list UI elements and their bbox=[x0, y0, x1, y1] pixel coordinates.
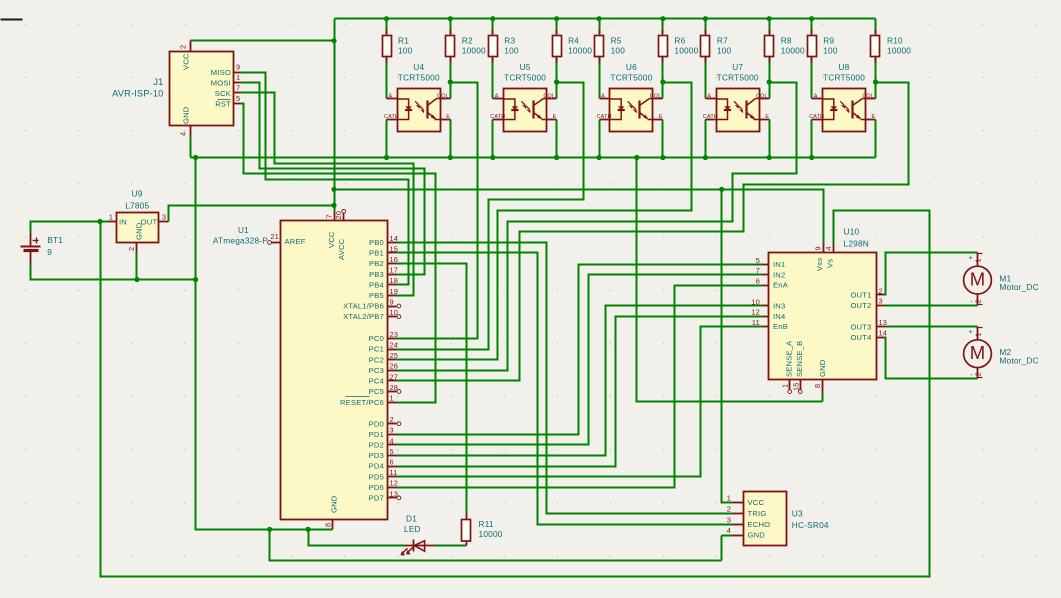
svg-text:Vss: Vss bbox=[815, 258, 824, 271]
svg-text:2: 2 bbox=[879, 286, 883, 295]
svg-text:28: 28 bbox=[390, 383, 399, 392]
svg-text:9: 9 bbox=[47, 247, 52, 257]
wire opto pin drop x9 bbox=[811, 120, 813, 158]
wire opto pin drop x10 bbox=[875, 120, 877, 158]
svg-text:19: 19 bbox=[390, 287, 399, 296]
svg-text:PD7: PD7 bbox=[369, 494, 384, 503]
svg-text:PB2: PB2 bbox=[369, 259, 384, 268]
junction bbox=[490, 16, 495, 21]
svg-text:10000: 10000 bbox=[462, 46, 486, 56]
svg-text:IN1: IN1 bbox=[773, 260, 785, 269]
svg-text:SCK: SCK bbox=[215, 89, 231, 98]
svg-text:VCC: VCC bbox=[327, 231, 336, 248]
resistor R7 bbox=[701, 30, 732, 63]
svg-text:3: 3 bbox=[390, 426, 394, 435]
ultrasonic sensor U3 HC-SR04 bbox=[727, 492, 829, 546]
svg-text:PD0: PD0 bbox=[369, 419, 384, 428]
junction bbox=[809, 155, 814, 160]
wire battery+ to L7805 IN bbox=[31, 222, 109, 234]
junction bbox=[193, 277, 198, 282]
svg-text:10000: 10000 bbox=[887, 46, 911, 56]
svg-text:3: 3 bbox=[727, 515, 731, 524]
optocoupler U6 TCRT5000 bbox=[597, 62, 663, 131]
wire U3 GND drop bbox=[721, 536, 723, 561]
svg-text:PC4: PC4 bbox=[369, 377, 384, 386]
junction bbox=[767, 79, 772, 84]
wire R9 to opto anode bbox=[811, 58, 813, 99]
wire opto pin drop x2 bbox=[450, 120, 452, 158]
wire MISO to PB4 bbox=[241, 73, 409, 285]
svg-text:PC0: PC0 bbox=[369, 334, 384, 343]
junction bbox=[809, 16, 814, 21]
svg-text:A: A bbox=[814, 93, 818, 99]
svg-text:1: 1 bbox=[390, 394, 394, 403]
wire U5 out to PC1 bbox=[397, 83, 584, 350]
svg-text:10000: 10000 bbox=[674, 46, 698, 56]
svg-text:R2: R2 bbox=[462, 36, 473, 46]
wire PD6 to EnA bbox=[397, 286, 763, 488]
svg-text:R7: R7 bbox=[717, 36, 728, 46]
junction bbox=[597, 16, 602, 21]
wire rail to R6 bbox=[662, 19, 664, 35]
svg-text:2: 2 bbox=[974, 372, 983, 376]
svg-text:U4: U4 bbox=[413, 62, 424, 72]
resistor R6 bbox=[659, 30, 699, 63]
junction bbox=[193, 155, 198, 160]
wire rail to R3 bbox=[492, 19, 494, 35]
resistor R9 bbox=[808, 30, 838, 63]
svg-text:AVCC: AVCC bbox=[337, 238, 346, 260]
junction bbox=[660, 16, 665, 21]
wire rail to R2 bbox=[450, 19, 452, 35]
wire R7 to opto anode bbox=[705, 58, 707, 99]
wire rail to R8 bbox=[769, 19, 771, 35]
svg-text:Motor_DC: Motor_DC bbox=[999, 356, 1038, 366]
junction bbox=[767, 16, 772, 21]
svg-text:TCRT5000: TCRT5000 bbox=[823, 73, 865, 83]
svg-text:VCC: VCC bbox=[182, 53, 191, 70]
svg-text:2: 2 bbox=[974, 299, 983, 303]
optocoupler U5 TCRT5000 bbox=[490, 62, 556, 131]
svg-text:E: E bbox=[765, 114, 769, 120]
svg-text:5: 5 bbox=[236, 94, 240, 103]
svg-text:10000: 10000 bbox=[781, 46, 805, 56]
svg-text:U6: U6 bbox=[626, 62, 637, 72]
svg-text:GND: GND bbox=[330, 495, 339, 513]
wire gnd to LED bbox=[309, 530, 405, 546]
svg-text:R5: R5 bbox=[611, 36, 622, 46]
resistor R2 bbox=[446, 30, 487, 63]
svg-text:PC3: PC3 bbox=[369, 366, 384, 375]
svg-text:PC5: PC5 bbox=[369, 387, 384, 396]
svg-text:24: 24 bbox=[390, 341, 399, 350]
junction bbox=[331, 187, 336, 192]
svg-text:COL: COL bbox=[756, 93, 768, 99]
svg-text:11: 11 bbox=[752, 318, 760, 327]
svg-text:PD2: PD2 bbox=[369, 441, 384, 450]
svg-text:E: E bbox=[659, 114, 663, 120]
svg-text:COL: COL bbox=[650, 93, 662, 99]
battery BT1 bbox=[21, 234, 64, 264]
wire OUT1 to M1+ bbox=[885, 253, 978, 295]
junction bbox=[554, 79, 559, 84]
wire R5 to opto anode bbox=[599, 58, 601, 99]
svg-text:9: 9 bbox=[814, 246, 823, 250]
wire opto pin drop x7 bbox=[705, 120, 707, 158]
svg-text:AREF: AREF bbox=[285, 237, 306, 246]
sheet border line bbox=[1, 19, 23, 21]
svg-text:14: 14 bbox=[879, 329, 888, 338]
svg-text:PD4: PD4 bbox=[369, 462, 384, 471]
wire L7805 GND drop bbox=[136, 253, 138, 280]
svg-text:PB1: PB1 bbox=[369, 249, 384, 258]
svg-text:7: 7 bbox=[756, 266, 760, 275]
wire PD1 to IN1 bbox=[397, 265, 763, 435]
svg-text:MISO: MISO bbox=[211, 68, 231, 77]
wire R2 to opto collector bbox=[450, 58, 452, 99]
svg-text:21: 21 bbox=[270, 232, 279, 241]
MCU U1 ATmega328-P bbox=[213, 209, 401, 529]
wire gnd to U10 GND bbox=[637, 158, 823, 402]
wire J1 VCC to trunk bbox=[191, 40, 335, 42]
svg-text:E: E bbox=[446, 114, 450, 120]
svg-text:IN2: IN2 bbox=[773, 270, 785, 279]
junction bbox=[703, 155, 708, 160]
wire PD2 to IN2 bbox=[397, 275, 763, 445]
svg-text:14: 14 bbox=[390, 234, 399, 243]
wire rail to R4 bbox=[556, 19, 558, 35]
svg-text:COL: COL bbox=[862, 93, 874, 99]
svg-text:9: 9 bbox=[236, 63, 240, 72]
svg-text:4: 4 bbox=[727, 526, 731, 535]
svg-text:GND: GND bbox=[135, 222, 144, 240]
svg-text:PB0: PB0 bbox=[369, 238, 384, 247]
svg-text:5: 5 bbox=[390, 447, 394, 456]
svg-text:10000: 10000 bbox=[479, 529, 503, 539]
optocoupler U7 TCRT5000 bbox=[703, 62, 770, 131]
svg-text:R3: R3 bbox=[504, 36, 515, 46]
svg-text:4: 4 bbox=[824, 246, 833, 250]
svg-text:8: 8 bbox=[813, 384, 822, 388]
wire VCC trunk to U1 bbox=[334, 19, 336, 212]
resistor R11 bbox=[462, 513, 503, 546]
wire R1 to opto anode bbox=[386, 58, 388, 99]
junction bbox=[448, 79, 453, 84]
svg-text:CATH: CATH bbox=[703, 114, 718, 120]
resistor R1 bbox=[383, 30, 413, 63]
svg-text:D1: D1 bbox=[406, 514, 417, 524]
svg-text:1: 1 bbox=[974, 258, 983, 262]
regulator U9 L7805 bbox=[109, 188, 169, 252]
svg-text:TCRT5000: TCRT5000 bbox=[398, 73, 440, 83]
svg-text:GND: GND bbox=[748, 531, 766, 540]
svg-text:2: 2 bbox=[179, 45, 188, 49]
wire L7805 OUT to trunk bbox=[169, 206, 335, 222]
svg-text:A: A bbox=[707, 93, 711, 99]
motor M1 bbox=[964, 253, 1039, 306]
svg-text:HC-SR04: HC-SR04 bbox=[792, 520, 829, 530]
svg-text:Vs: Vs bbox=[826, 259, 835, 268]
wire +5V top rail bbox=[335, 18, 876, 20]
svg-text:20: 20 bbox=[334, 211, 343, 220]
junction bbox=[331, 38, 336, 43]
svg-text:PB3: PB3 bbox=[369, 270, 384, 279]
svg-text:OUT2: OUT2 bbox=[850, 301, 871, 310]
svg-text:5: 5 bbox=[756, 256, 760, 265]
motor driver U10 L298N bbox=[751, 227, 887, 394]
wire U6 out to PC2 bbox=[397, 83, 692, 360]
svg-text:27: 27 bbox=[390, 372, 399, 381]
junction bbox=[703, 16, 708, 21]
svg-text:7: 7 bbox=[325, 214, 334, 218]
svg-text:OUT4: OUT4 bbox=[850, 333, 871, 342]
junction bbox=[660, 155, 665, 160]
svg-text:M: M bbox=[970, 269, 985, 290]
wire gnd trunk to U1 GND bbox=[196, 158, 333, 530]
junction bbox=[134, 277, 139, 282]
junction bbox=[719, 187, 724, 192]
svg-text:SENSE_B: SENSE_B bbox=[795, 341, 804, 377]
wire PB0 to TRIG bbox=[397, 243, 733, 514]
svg-text:TCRT5000: TCRT5000 bbox=[717, 73, 759, 83]
wire rail to R9 bbox=[811, 19, 813, 35]
svg-text:R1: R1 bbox=[398, 36, 409, 46]
junction bbox=[384, 16, 389, 21]
svg-text:PC2: PC2 bbox=[369, 355, 384, 364]
svg-text:23: 23 bbox=[390, 330, 399, 339]
junction bbox=[634, 155, 639, 160]
svg-text:PD1: PD1 bbox=[369, 430, 384, 439]
junction bbox=[384, 155, 389, 160]
svg-text:15: 15 bbox=[791, 382, 800, 391]
svg-text:MOSI: MOSI bbox=[211, 78, 231, 87]
junction bbox=[306, 527, 311, 532]
LED D1 bbox=[400, 514, 434, 556]
svg-text:1: 1 bbox=[727, 494, 731, 503]
junction bbox=[660, 79, 665, 84]
svg-text:13: 13 bbox=[390, 489, 399, 498]
svg-text:CATH: CATH bbox=[490, 114, 505, 120]
svg-text:13: 13 bbox=[879, 318, 888, 327]
svg-text:PB5: PB5 bbox=[369, 291, 384, 300]
svg-text:ECHO: ECHO bbox=[748, 520, 771, 529]
svg-text:1: 1 bbox=[974, 332, 983, 336]
wire opto pin drop x5 bbox=[599, 120, 601, 158]
wire R10 to opto collector bbox=[875, 58, 877, 99]
wire R6 to opto collector bbox=[662, 58, 664, 99]
wire rail to R5 bbox=[599, 19, 601, 35]
svg-text:IN4: IN4 bbox=[773, 312, 785, 321]
wire rail to R10 bbox=[875, 19, 877, 35]
svg-text:GND: GND bbox=[818, 359, 827, 377]
svg-text:12: 12 bbox=[751, 308, 760, 317]
svg-text:BT1: BT1 bbox=[47, 235, 63, 245]
svg-text:100: 100 bbox=[717, 46, 732, 56]
svg-text:M: M bbox=[970, 342, 985, 363]
svg-text:EnA: EnA bbox=[773, 281, 789, 290]
svg-text:CATH: CATH bbox=[809, 114, 824, 120]
wire U7 out to PC3 bbox=[397, 83, 797, 371]
svg-text:2: 2 bbox=[127, 247, 136, 251]
wire opto pin drop x1 bbox=[386, 120, 388, 158]
svg-text:PD5: PD5 bbox=[369, 472, 384, 481]
svg-text:12: 12 bbox=[390, 479, 399, 488]
svg-text:GND: GND bbox=[182, 106, 191, 124]
svg-text:XTAL1/PB6: XTAL1/PB6 bbox=[343, 302, 384, 311]
wire opto pin drop x4 bbox=[556, 120, 558, 158]
svg-text:E: E bbox=[553, 114, 557, 120]
svg-text:U9: U9 bbox=[132, 188, 143, 198]
svg-text:100: 100 bbox=[823, 46, 838, 56]
svg-text:U8: U8 bbox=[838, 62, 849, 72]
wire sensor gnd rail bbox=[191, 157, 876, 159]
svg-text:CATH: CATH bbox=[597, 114, 612, 120]
svg-text:AVR-ISP-10: AVR-ISP-10 bbox=[112, 88, 163, 98]
svg-text:11: 11 bbox=[390, 468, 398, 477]
wire +5V to U10 VSS bbox=[335, 190, 824, 244]
svg-text:U1: U1 bbox=[238, 225, 249, 235]
wire 9V to U10 VS bbox=[101, 211, 930, 577]
svg-text:8: 8 bbox=[324, 523, 333, 527]
svg-text:1: 1 bbox=[236, 73, 240, 82]
wire battery- rail bbox=[31, 264, 196, 280]
svg-text:LED: LED bbox=[404, 524, 421, 534]
wire PB2 to R11 bbox=[397, 264, 467, 513]
svg-text:25: 25 bbox=[390, 351, 399, 360]
wire OUT2 to M1- bbox=[885, 305, 978, 307]
wire U8 out to PC4 bbox=[397, 83, 909, 381]
svg-text:L298N: L298N bbox=[844, 239, 869, 249]
wire MOSI to PB3 bbox=[241, 83, 425, 275]
svg-text:100: 100 bbox=[504, 46, 519, 56]
svg-text:9: 9 bbox=[390, 297, 394, 306]
svg-text:SENSE_A: SENSE_A bbox=[785, 340, 794, 377]
svg-text:4: 4 bbox=[179, 132, 188, 136]
optocoupler U4 TCRT5000 bbox=[384, 62, 451, 131]
resistor R4 bbox=[553, 30, 593, 63]
wire PD4 to IN4 bbox=[397, 317, 763, 467]
junction bbox=[873, 79, 878, 84]
svg-text:PD6: PD6 bbox=[369, 483, 384, 492]
svg-text:L7805: L7805 bbox=[125, 201, 149, 211]
wire OUT4 to M2- bbox=[885, 338, 978, 379]
wire PB1 to ECHO bbox=[397, 253, 733, 525]
junction bbox=[448, 155, 453, 160]
svg-text:PC1: PC1 bbox=[369, 345, 384, 354]
svg-text:TRIG: TRIG bbox=[748, 509, 767, 518]
svg-text:E: E bbox=[872, 114, 876, 120]
svg-text:2: 2 bbox=[390, 415, 394, 424]
junction bbox=[554, 16, 559, 21]
junction bbox=[267, 527, 272, 532]
svg-text:7: 7 bbox=[236, 84, 240, 93]
svg-text:R4: R4 bbox=[568, 36, 579, 46]
wire opto pin drop x6 bbox=[662, 120, 664, 158]
junction bbox=[597, 155, 602, 160]
svg-text:IN: IN bbox=[119, 218, 127, 227]
svg-text:CATH: CATH bbox=[384, 114, 399, 120]
svg-text:6: 6 bbox=[390, 458, 394, 467]
svg-text:Motor_DC: Motor_DC bbox=[999, 282, 1038, 292]
junction bbox=[490, 155, 495, 160]
svg-text:R10: R10 bbox=[887, 36, 903, 46]
wire U3 GND link bbox=[722, 535, 733, 537]
wire PD5 to EnB bbox=[397, 327, 763, 477]
svg-text:PB4: PB4 bbox=[369, 280, 384, 289]
junction bbox=[448, 16, 453, 21]
svg-text:3: 3 bbox=[162, 212, 166, 221]
svg-text:VCC: VCC bbox=[748, 498, 765, 507]
svg-text:10000: 10000 bbox=[568, 46, 592, 56]
wire opto pin drop x3 bbox=[492, 120, 494, 158]
svg-text:TCRT5000: TCRT5000 bbox=[504, 73, 546, 83]
svg-text:A: A bbox=[601, 93, 605, 99]
svg-text:XTAL2/PB7: XTAL2/PB7 bbox=[343, 312, 384, 321]
svg-text:18: 18 bbox=[390, 276, 399, 285]
wire PD3 to IN3 bbox=[397, 306, 763, 456]
wire U10 GND stub drop bbox=[822, 394, 824, 402]
svg-text:10: 10 bbox=[390, 308, 399, 317]
svg-text:15: 15 bbox=[390, 244, 399, 253]
svg-text:RST: RST bbox=[215, 99, 231, 108]
svg-text:OUT1: OUT1 bbox=[850, 291, 871, 300]
wire opto pin drop x8 bbox=[769, 120, 771, 158]
wire J1 GND drop bbox=[190, 137, 192, 158]
wire +5V to U3 VCC bbox=[722, 190, 733, 503]
motor M2 bbox=[964, 327, 1039, 379]
resistor R10 bbox=[871, 30, 912, 63]
svg-text:TCRT5000: TCRT5000 bbox=[610, 73, 652, 83]
svg-text:J1: J1 bbox=[153, 77, 163, 87]
wire SCK to PB5 bbox=[241, 93, 414, 296]
svg-text:100: 100 bbox=[398, 46, 413, 56]
svg-text:3: 3 bbox=[879, 297, 883, 306]
svg-text:U3: U3 bbox=[792, 509, 803, 519]
svg-text:10: 10 bbox=[751, 297, 760, 306]
svg-text:R8: R8 bbox=[781, 36, 792, 46]
svg-text:1: 1 bbox=[780, 384, 789, 388]
svg-text:PD3: PD3 bbox=[369, 451, 384, 460]
resistor R5 bbox=[595, 30, 626, 63]
wire rail to R7 bbox=[705, 19, 707, 35]
svg-text:U5: U5 bbox=[520, 62, 531, 72]
svg-text:R6: R6 bbox=[674, 36, 685, 46]
svg-text:ATmega328-P: ATmega328-P bbox=[213, 236, 268, 246]
svg-text:COL: COL bbox=[543, 93, 555, 99]
svg-text:A: A bbox=[495, 93, 499, 99]
junction bbox=[97, 219, 102, 224]
svg-text:17: 17 bbox=[390, 266, 399, 275]
junction bbox=[554, 155, 559, 160]
connector J1 AVR-ISP-10 bbox=[112, 41, 240, 137]
svg-text:2: 2 bbox=[727, 504, 731, 513]
resistor R3 bbox=[489, 30, 519, 63]
svg-text:R11: R11 bbox=[479, 519, 494, 529]
wire rail to R1 bbox=[386, 19, 388, 35]
junction bbox=[767, 155, 772, 160]
svg-text:EnB: EnB bbox=[773, 322, 788, 331]
junction bbox=[331, 203, 336, 208]
wire RST to RESET bbox=[241, 104, 436, 403]
wire OUT3 to M2+ bbox=[885, 326, 978, 328]
wire R4 to opto collector bbox=[556, 58, 558, 99]
svg-text:IN3: IN3 bbox=[773, 302, 785, 311]
svg-text:U7: U7 bbox=[732, 62, 743, 72]
svg-text:100: 100 bbox=[611, 46, 626, 56]
svg-text:COL: COL bbox=[437, 93, 449, 99]
resistor R8 bbox=[765, 30, 805, 63]
svg-text:RESET/PC6: RESET/PC6 bbox=[340, 398, 384, 407]
